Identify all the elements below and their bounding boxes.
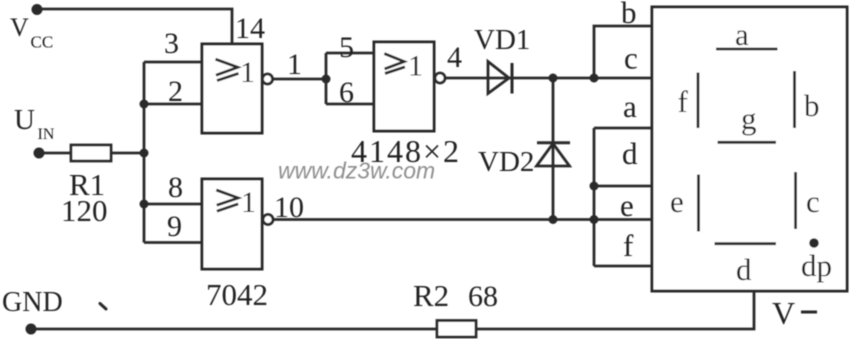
svg-text:dp: dp [801, 248, 832, 283]
junction dot Uin node [140, 149, 149, 158]
svg-text:6: 6 [339, 76, 354, 109]
wire pin 5 [326, 52, 374, 55]
svg-text:2: 2 [168, 75, 183, 108]
wire adef bus vertical [593, 128, 596, 266]
svg-text:VD2: VD2 [478, 146, 534, 178]
gate U1c (OR, &#8805;1) [202, 179, 262, 269]
svg-text:b: b [621, 0, 637, 30]
svg-text:b: b [804, 88, 820, 123]
svg-text:e: e [670, 184, 684, 219]
node Uin terminal [34, 148, 45, 159]
segment e [697, 175, 700, 232]
gate U1a (OR, &#8805;1) [202, 44, 262, 133]
wire pin 2 [144, 103, 202, 106]
gate U1b output bubble [435, 73, 445, 83]
svg-text:14: 14 [235, 12, 265, 45]
segment d [715, 242, 777, 245]
wire pin 8 [144, 203, 202, 206]
svg-text:V: V [772, 295, 795, 331]
diode VD1 [488, 62, 512, 94]
wire a [594, 127, 652, 130]
gate U1c output bubble [263, 215, 273, 225]
segment b [793, 71, 796, 128]
svg-text:GND: GND [2, 287, 63, 318]
svg-text:f: f [623, 228, 634, 263]
wire node1 vertical [325, 53, 328, 104]
svg-text:d: d [736, 252, 752, 287]
svg-text:a: a [735, 17, 749, 52]
wire R1 to bus [111, 152, 144, 155]
wire gate3 output to display e [273, 218, 652, 221]
svg-text:www.dz3w.com: www.dz3w.com [278, 158, 435, 184]
svg-text:d: d [622, 136, 638, 171]
stray tick mark [100, 304, 106, 310]
svg-text:1: 1 [241, 186, 256, 219]
segment dp dot [809, 238, 819, 248]
wire gate1 output to node 1 [273, 78, 327, 81]
svg-text:IN: IN [38, 126, 55, 143]
svg-text:8: 8 [168, 171, 183, 204]
svg-text:120: 120 [61, 193, 108, 228]
segment c [794, 172, 797, 229]
svg-text:1: 1 [287, 48, 302, 81]
svg-text:5: 5 [339, 31, 354, 64]
wire pin 9 [144, 241, 202, 244]
svg-text:68: 68 [468, 280, 498, 313]
junction dot pin8 node [140, 200, 149, 209]
7-segment display U2 body [652, 7, 847, 291]
wire Vcc to pin 14 [37, 9, 232, 44]
junction dot VD2 bottom [549, 215, 558, 224]
svg-text:e: e [620, 188, 634, 223]
svg-text:1: 1 [240, 56, 255, 89]
wire f [594, 265, 652, 268]
junction dot node 1 [322, 75, 331, 84]
wire R2 to display V- [476, 291, 754, 329]
wire d [594, 185, 652, 188]
svg-text:U: U [14, 104, 35, 136]
wire VD2 vertical [552, 78, 555, 220]
segment a [716, 48, 778, 51]
wire pin 6 [326, 103, 374, 106]
wire input bus vertical [143, 62, 146, 243]
label V- [772, 295, 817, 331]
resistor R1 [71, 145, 111, 161]
junction dot bc box [590, 74, 599, 83]
junction dot pin2 node [140, 100, 149, 109]
wire pin4 through VD1 to display c [445, 77, 652, 80]
diode VD2 [537, 143, 571, 166]
wire Uin to R1 [39, 152, 71, 155]
wire pin 3 [144, 61, 202, 64]
svg-text:1: 1 [408, 50, 423, 83]
segment f [697, 73, 700, 129]
svg-text:CC: CC [31, 33, 54, 52]
wire GND to R2 [31, 328, 437, 331]
label Vcc [10, 13, 53, 52]
node GND terminal [26, 324, 37, 335]
svg-text:g: g [741, 101, 757, 136]
gate U1b (OR, &#8805;1) [374, 42, 434, 131]
segment g [718, 141, 777, 144]
svg-text:V: V [10, 13, 29, 42]
wire b [594, 26, 652, 79]
svg-text:4: 4 [447, 41, 462, 74]
svg-text:9: 9 [167, 210, 182, 243]
svg-text:a: a [623, 89, 637, 124]
label Uin [14, 104, 55, 143]
label R2 68 [413, 278, 498, 313]
svg-text:3: 3 [164, 27, 179, 60]
svg-text:7042: 7042 [206, 277, 268, 312]
junction dot adef bus [590, 215, 599, 224]
gate U1a output bubble [263, 74, 273, 84]
junction dot VD2 top [549, 74, 558, 83]
svg-text:f: f [678, 84, 689, 119]
node Vcc terminal [32, 4, 43, 15]
junction dot d node [590, 182, 599, 191]
svg-text:VD1: VD1 [474, 24, 530, 56]
resistor R2 [437, 321, 476, 338]
svg-text:R2: R2 [413, 278, 449, 313]
svg-text:c: c [806, 184, 820, 219]
svg-text:c: c [624, 41, 638, 76]
